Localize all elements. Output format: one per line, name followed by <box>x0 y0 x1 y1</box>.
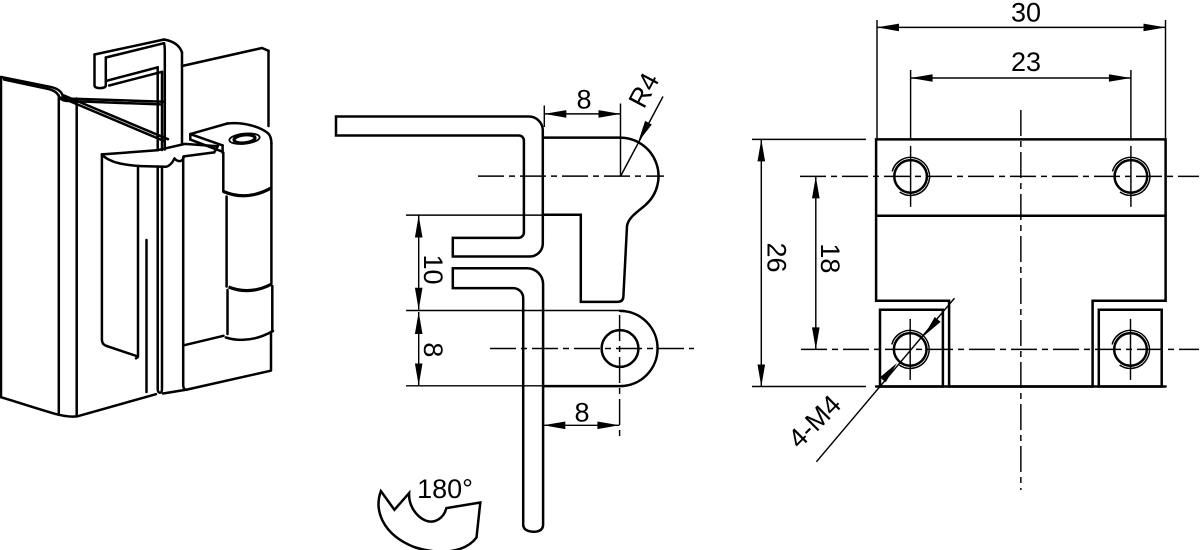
svg-text:23: 23 <box>1011 47 1041 77</box>
svg-text:26: 26 <box>761 242 791 272</box>
svg-text:8: 8 <box>574 397 589 427</box>
svg-text:8: 8 <box>418 342 448 357</box>
svg-text:18: 18 <box>815 243 845 273</box>
svg-text:180°: 180° <box>417 474 473 504</box>
svg-text:8: 8 <box>576 84 591 114</box>
svg-text:10: 10 <box>418 254 448 284</box>
svg-text:30: 30 <box>1011 0 1041 27</box>
svg-text:R4: R4 <box>623 68 666 113</box>
svg-text:4-M4: 4-M4 <box>782 389 847 454</box>
